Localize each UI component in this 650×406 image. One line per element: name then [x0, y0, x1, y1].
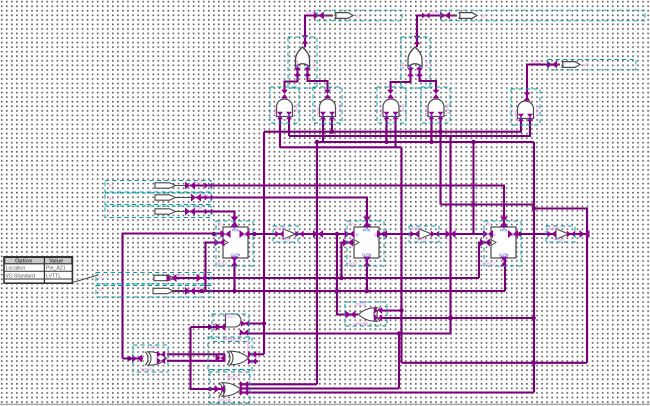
pin marker AND1 inB [286, 112, 292, 120]
pin marker XOR5 outB [157, 357, 165, 364]
and-gate U3 [277, 99, 293, 117]
wire buffer2 to FF3 D [432, 233, 484, 235]
pin marker a1 [185, 182, 195, 190]
wire pin b1 run [175, 277, 479, 279]
wire AND4 input A drop [430, 117, 432, 143]
selection box buffer1 [273, 226, 298, 242]
junction x534 h362 [532, 361, 536, 365]
wire FF3 bottom pin to pin b2 run [504, 258, 506, 291]
selection box buffer3 [546, 226, 575, 242]
pin marker OR1 inA [294, 68, 301, 76]
wire AND3 input B drop [394, 117, 396, 148]
pin marker x587 joint [580, 230, 590, 238]
pin marker G6 outB [240, 329, 248, 336]
pin marker XOR4 inB [374, 315, 382, 322]
svg-text:ff2: ff2 [349, 222, 354, 227]
pin marker AND4 inA [429, 112, 435, 120]
pin marker FF2 Q [377, 230, 387, 238]
flip-flop FF3 [491, 227, 516, 258]
pin marker AND2 inB [329, 112, 335, 120]
selection box output y3 [548, 60, 636, 70]
pin marker AND3 out [387, 90, 394, 98]
wire h142 bus [317, 141, 534, 143]
junction x367 pinb2 [365, 289, 369, 293]
pin marker a1 tick [205, 183, 213, 189]
junction G6 up out [262, 321, 266, 325]
svg-text:inst23: inst23 [246, 341, 250, 351]
pin marker XOR4 out [346, 311, 356, 319]
wire h362 bottom bus [402, 362, 588, 364]
junction AND4 inA h142 [429, 140, 433, 144]
wire pin b2 run [172, 290, 505, 292]
selection box output y2 [441, 10, 645, 21]
svg-text:inst3: inst3 [316, 108, 320, 116]
selection box OR2 [401, 37, 430, 88]
wire XOR5 out lower to XOR7 [167, 360, 225, 362]
wire output y1 net [305, 16, 333, 48]
and-buffer gate G6 [226, 314, 242, 327]
pin marker AND3 inB [393, 112, 399, 120]
svg-text:a3: a3 [109, 209, 114, 214]
pin marker XOR5 outA [157, 351, 165, 358]
pin marker x321 [313, 230, 323, 238]
pin marker FF1 preset [231, 217, 239, 227]
buffer B2 [419, 229, 432, 239]
svg-text:inst17: inst17 [411, 226, 423, 231]
svg-text:R: R [99, 288, 102, 293]
svg-text:a1: a1 [109, 183, 114, 188]
svg-text:inst18: inst18 [548, 226, 560, 231]
junction AND2 inB h131 [330, 130, 334, 134]
input pin b2 symbol [153, 288, 174, 293]
wire FF3 Q to buffer3 [516, 233, 556, 235]
pin marker AND4 out [433, 90, 440, 98]
junction FF1 D left [212, 232, 216, 236]
svg-text:inst12: inst12 [536, 106, 540, 116]
junction h204 x473 [471, 202, 475, 206]
svg-text:inst21: inst21 [224, 314, 236, 319]
pin marker y1 wire corner [314, 12, 324, 20]
svg-text:inst2: inst2 [295, 104, 299, 112]
svg-text:a2: a2 [109, 196, 114, 201]
pin marker AND1 inA [277, 112, 283, 120]
wire XOR6 out A to x317 [241, 383, 317, 385]
selection box AND3 [377, 87, 406, 123]
or-gate U1 [296, 47, 310, 67]
bottom divider line [0, 404, 650, 405]
svg-text:inst7: inst7 [380, 108, 384, 116]
pin marker XOR6 outC [240, 389, 248, 396]
wire OR2 right input from AND4 output [420, 67, 437, 93]
junction x337 row [335, 232, 339, 236]
wire XOR4 output up [337, 234, 358, 315]
selection box XOR5 [133, 345, 168, 372]
svg-text:wire4in: wire4in [355, 321, 369, 326]
buffer B3 [556, 229, 569, 239]
pin marker OR2 inB [416, 68, 423, 76]
junction x337 pinb2 [335, 289, 339, 293]
svg-text:C: C [99, 275, 102, 280]
svg-text:wire2: wire2 [417, 237, 428, 242]
junction h318 x533 [532, 316, 536, 320]
pin marker XOR6 outA [240, 381, 248, 388]
junction x234 pinb2 [232, 289, 236, 293]
junction x534 h208 [532, 206, 536, 210]
svg-text:ff1: ff1 [218, 222, 223, 227]
wire vertical x399 [398, 334, 400, 389]
svg-text:Option: Option [15, 259, 32, 265]
input pin a3 symbol [155, 209, 176, 214]
pin marker y2 [440, 12, 450, 20]
pin marker AND2 out [324, 90, 331, 98]
svg-text:Location: Location [6, 266, 26, 272]
svg-text:inst22: inst22 [141, 367, 153, 372]
buffer B1 [283, 229, 296, 239]
wire AND2 input B drop [331, 117, 333, 132]
wire feedback into XOR5 input [123, 357, 144, 359]
svg-text:y3: y3 [584, 62, 589, 67]
junction XOR5 input [127, 356, 131, 360]
svg-text:wire3: wire3 [554, 237, 565, 242]
wire h204 to x534 [441, 203, 535, 205]
svg-text:wire6in: wire6in [218, 398, 232, 403]
and-gate U4 [320, 99, 336, 117]
selection box input a1 [105, 181, 211, 193]
or-gate U2 [408, 47, 422, 67]
svg-text:clkin: clkin [176, 272, 185, 277]
wire long vertical x534 [533, 142, 535, 393]
wire XOR5 out upper to XOR7 [167, 353, 225, 355]
pin marker XOR6 in [215, 385, 225, 393]
selection box FF3 [484, 221, 521, 266]
output pin y2 symbol [459, 13, 478, 19]
pin marker FF1 clk [215, 239, 225, 247]
junction x317 h142 [315, 140, 319, 144]
svg-text:inst11: inst11 [514, 110, 518, 120]
and-gate U6 [428, 99, 444, 117]
svg-text:inst14: inst14 [348, 262, 358, 266]
wire FF1 bottom pin drop [233, 258, 235, 291]
output pin y3 symbol [562, 62, 581, 68]
pin marker y3 [547, 61, 557, 69]
pin marker OR1 inB [304, 68, 311, 76]
wire OR2 left input from AND3 output [391, 67, 411, 93]
pin marker FF2 clr [363, 257, 371, 267]
pin marker b1 second [197, 274, 207, 282]
input pin a1 symbol [155, 183, 176, 188]
wire XOR6 out B to x399 [241, 387, 399, 389]
wire XOR4 input upper [382, 309, 402, 311]
pin marker buf2 in [410, 231, 418, 238]
selection box input b1 [96, 273, 211, 285]
junction pin b2 [199, 289, 203, 293]
pin marker G6 outA [241, 320, 249, 327]
svg-text:inst15: inst15 [485, 262, 495, 266]
selection box OR1 [288, 37, 317, 88]
selection box output y1 [317, 10, 402, 21]
pin marker AND4 inB [438, 112, 444, 120]
wire G6 vertical feed down to XOR6 input [191, 327, 223, 389]
svg-text:Value: Value [49, 259, 63, 265]
wire AND4 input B drop long to bus [439, 117, 441, 205]
flip-flop FF2 [354, 227, 379, 258]
wire XOR6 out C to x534 [241, 391, 534, 393]
pin marker XOR4 inA [374, 307, 382, 314]
wire vertical x473 FF3 D feed [472, 142, 474, 234]
wire FF2 Q to buffer2 [379, 233, 419, 235]
and-gate U7 [518, 101, 534, 119]
wire output y2 net [417, 16, 457, 48]
pin marker buf1 in [275, 231, 283, 238]
pin marker y2 arrow [422, 13, 430, 19]
wire long vertical x450 [449, 136, 451, 334]
xor-gate G7 [227, 351, 249, 365]
pin marker FF3 clr [500, 257, 508, 267]
junction AND4 inB h131 [438, 130, 442, 134]
svg-text:inst6: inst6 [338, 104, 342, 112]
svg-text:inst9: inst9 [312, 60, 316, 68]
pin marker a3 tick [205, 209, 213, 215]
junction x399 h333 [397, 331, 401, 335]
wire AND1 input B drop [288, 117, 290, 137]
svg-text:inst8: inst8 [401, 104, 405, 112]
junction x473 h142 [471, 140, 475, 144]
wire h208 to x587 corner [534, 209, 587, 363]
pin marker AND3 inA [384, 112, 390, 120]
pin marker XOR5 in [132, 355, 142, 363]
wire OR1 right input from AND2 output [308, 67, 328, 93]
svg-text:wire1: wire1 [281, 237, 292, 242]
selection box XOR4 [345, 302, 387, 326]
properties table [4, 257, 98, 283]
pin marker FF3 D [483, 230, 493, 238]
svg-text:LVTTL: LVTTL [46, 273, 61, 279]
input pin b1 symbol [154, 275, 175, 280]
wire pin a2 lead [174, 186, 197, 292]
wire FF1 Q to buffer1 [248, 233, 283, 235]
pin marker AND5 inB [527, 114, 533, 122]
pin marker FF2 clk [343, 239, 353, 247]
wire FF3 clock bend down [479, 243, 491, 279]
wire long vertical x317 [316, 142, 318, 384]
wire XOR7 out lower stub [249, 360, 258, 362]
junction x450 h318 [448, 316, 453, 321]
svg-text:inst5: inst5 [425, 60, 429, 68]
pin marker G6 in [216, 323, 226, 331]
pin marker a3 [185, 208, 195, 216]
svg-text:a1in: a1in [194, 180, 203, 185]
pin marker FF1 clr [231, 257, 239, 267]
pin marker XOR7 outB [248, 358, 256, 365]
svg-text:ff3: ff3 [486, 222, 491, 227]
wire AND1 input A drop [279, 117, 281, 148]
pin marker a2 tick [205, 195, 213, 201]
wire AND3 input A drop [385, 117, 387, 143]
wire FF2 clock bend down [342, 243, 355, 279]
pin marker FF3 preset [500, 217, 508, 227]
pin marker FF2 D [345, 230, 355, 238]
pin marker FF1 D [221, 230, 231, 238]
wire AND5 input A from h131 [264, 117, 521, 132]
pin marker AND5 out low [524, 92, 531, 100]
wire pin a2 run to FF2 preset [196, 198, 367, 228]
svg-text:rstin: rstin [194, 285, 203, 290]
selection box FF2 [347, 221, 384, 266]
output pin y1 symbol [335, 13, 354, 19]
wire FF1 D segment from feedback [123, 234, 223, 359]
pin marker b1 [167, 274, 177, 282]
junction AND3 inA h142 [384, 140, 388, 144]
junction XOR4 upper in [399, 308, 403, 312]
flip-flop FF1 [223, 227, 248, 258]
svg-text:inst13: inst13 [217, 262, 227, 266]
selection box XOR6 [210, 370, 250, 404]
svg-text:inst9: inst9 [424, 108, 428, 116]
pin marker buf1 out [295, 231, 303, 238]
selection box FF1 [216, 221, 253, 266]
wire pin a3 run to FF1 preset [190, 212, 235, 228]
wire pin a1 run to FF3 preset [190, 186, 504, 228]
and-gate U5 [383, 99, 399, 117]
wire long vertical x264 [263, 132, 265, 355]
wire XOR4 input lower [382, 317, 534, 319]
xor-gate G4 pointing left [359, 308, 381, 322]
selection box input b2 [96, 286, 211, 298]
wire output y3 net [527, 65, 560, 102]
selection box XOR7 [208, 337, 252, 372]
svg-text:y2: y2 [481, 13, 486, 18]
pin marker OR2 inA [407, 68, 414, 76]
wire G6 output upper to x264 [242, 322, 264, 324]
svg-text:inst24: inst24 [230, 337, 242, 342]
wire buffer gate G6 input [191, 326, 226, 328]
svg-text:a2in: a2in [200, 193, 209, 198]
svg-text:I/O Standard: I/O Standard [6, 273, 36, 279]
xor-gate G8 [219, 383, 241, 397]
svg-text:inst5: inst5 [401, 62, 405, 70]
junction FF1 Q [252, 232, 256, 236]
callout line [72, 275, 98, 283]
pin marker AND2 inA [320, 112, 326, 120]
junction FF2 Q [382, 232, 386, 236]
wire AND2 input A drop [322, 117, 324, 143]
wire long vertical x401 [400, 147, 402, 362]
svg-text:inst25: inst25 [227, 375, 239, 380]
pin marker OR1 out [302, 35, 309, 43]
svg-text:y1: y1 [356, 13, 361, 18]
pin marker XOR6 outB [240, 385, 248, 392]
wire buffer3 out to x587 [569, 233, 588, 235]
pin marker XOR7 in [216, 354, 226, 362]
wire G6 output lower to x450 [242, 332, 451, 334]
svg-text:Pin_A21: Pin_A21 [46, 266, 66, 272]
pin marker buf2 out [431, 231, 439, 238]
pin marker FF1 Q [240, 230, 250, 238]
svg-text:ba3: ba3 [150, 345, 158, 350]
wire OR1 left input from AND1 output [285, 67, 298, 93]
svg-text:inst10: inst10 [446, 104, 450, 114]
pin marker buf3 out [567, 231, 575, 238]
junction G6 input [207, 325, 211, 329]
pin marker AND1 out [281, 90, 288, 98]
junction x341 pinb1 [339, 276, 343, 280]
selection box buffer2 [409, 226, 439, 242]
selection box input a3 [105, 206, 211, 218]
selection box AND4 [421, 87, 450, 123]
wire XOR7 out upper to x264 [249, 353, 264, 355]
input pin a2 symbol [155, 195, 176, 200]
junction FF3 Q [518, 232, 522, 236]
svg-text:inst16: inst16 [275, 226, 287, 231]
svg-text:s1out: s1out [306, 10, 317, 15]
wire buffer1 to FF2 D [296, 233, 354, 235]
wire output lead thin y1 [322, 16, 560, 65]
pin marker x450 [446, 230, 456, 238]
svg-text:inst1: inst1 [273, 108, 277, 116]
pin marker XOR7 outA [248, 351, 256, 358]
selection box AND1 [270, 87, 299, 123]
svg-text:inst20: inst20 [355, 302, 367, 307]
selection box input a2 [105, 193, 211, 205]
svg-text:a3in: a3in [194, 206, 203, 211]
svg-text:s2out: s2out [429, 10, 440, 15]
wire FF1 clock bend down [206, 243, 224, 292]
pin marker FF3 clk [480, 239, 490, 247]
selection box AND5 [511, 89, 540, 125]
wire FF2 bottom pin drop [366, 258, 368, 291]
svg-text:s3out: s3out [531, 60, 542, 65]
blue pin connection ticks [234, 66, 531, 258]
pin marker b2 [185, 287, 195, 295]
pin marker FF2 preset [363, 217, 371, 227]
selection box G6 [212, 314, 249, 342]
wire h147 bus [280, 146, 402, 148]
pin marker a2 [191, 194, 201, 202]
pin marker OR2 out [414, 36, 421, 44]
pin marker buf3 in [547, 231, 555, 238]
junction XOR6 input [208, 387, 212, 391]
pin marker AND5 inA [518, 114, 524, 122]
pin marker FF3 Q [508, 230, 518, 238]
selection box AND2 [313, 87, 342, 123]
xor-gate G5 [145, 352, 167, 366]
wire AND5 input B from h136 [289, 117, 530, 137]
